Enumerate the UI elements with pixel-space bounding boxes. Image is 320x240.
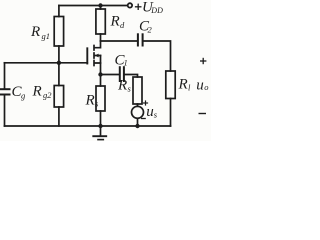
wire gate horizontal xyxy=(5,62,88,64)
svg-text:R: R xyxy=(178,77,188,93)
resistor Rd bottom lead xyxy=(100,34,102,41)
svg-text:1: 1 xyxy=(124,58,128,68)
transistor Q1 channel dashes xyxy=(93,46,95,66)
resistor Rs source xyxy=(96,86,105,111)
wire Rs source top lead xyxy=(100,75,102,87)
svg-text:o: o xyxy=(204,82,208,92)
transistor Q1 substrate lead xyxy=(95,55,101,57)
label +UDD plus xyxy=(135,4,142,10)
node drain rail junction xyxy=(98,3,102,7)
ground stub xyxy=(100,126,102,135)
wire source node to C1 xyxy=(101,74,120,76)
wire Cg bottom lead xyxy=(4,95,6,126)
wire Rg1 bottom lead xyxy=(58,46,60,63)
capacitor C2 xyxy=(138,34,143,45)
svg-text:g: g xyxy=(21,91,25,101)
svg-text:g1: g1 xyxy=(42,31,51,41)
wire left vertical to Cg xyxy=(4,63,6,89)
wire Rl bottom lead xyxy=(170,99,172,127)
wire us bottom lead xyxy=(137,118,139,126)
node Rs bottom junction xyxy=(98,124,102,128)
node gate junction xyxy=(57,61,61,65)
label us plus xyxy=(143,100,148,105)
wire drain to C2 xyxy=(101,40,138,42)
svg-text:u: u xyxy=(146,104,154,120)
svg-text:R: R xyxy=(117,78,127,94)
resistor Rg1 xyxy=(54,17,63,47)
resistor Rd xyxy=(96,9,105,34)
wire Rg2 bottom lead xyxy=(58,107,60,126)
wire C1 to Rs xyxy=(125,75,138,78)
label us minus xyxy=(141,118,146,120)
svg-text:R: R xyxy=(30,24,40,40)
wire Rs to us xyxy=(137,104,139,106)
svg-text:R: R xyxy=(110,14,120,30)
node source junction xyxy=(98,72,102,76)
svg-text:g2: g2 xyxy=(43,90,52,100)
label uo minus xyxy=(199,113,207,115)
svg-text:DD: DD xyxy=(150,6,163,15)
source us circle xyxy=(132,106,144,118)
wire Rg1 top lead xyxy=(58,6,60,17)
resistor Rl xyxy=(166,71,175,99)
node us bottom junction xyxy=(135,124,139,128)
capacitor C1 xyxy=(120,67,124,81)
ground xyxy=(93,136,106,139)
terminal +UDD xyxy=(128,3,132,7)
transistor Q1 source lead xyxy=(95,56,101,64)
resistor Rs signal xyxy=(133,77,142,104)
wire bottom rail xyxy=(5,125,171,127)
wire C2 to output node xyxy=(144,41,171,71)
transistor Q1 drain lead xyxy=(95,41,101,48)
svg-text:R: R xyxy=(32,84,42,100)
svg-text:u: u xyxy=(196,78,204,94)
wire top supply rail xyxy=(59,5,128,7)
transistor Q1 substrate arrow xyxy=(95,54,99,58)
wire Rs source bottom lead xyxy=(100,111,102,126)
svg-text:R: R xyxy=(85,93,95,109)
capacitor Cg xyxy=(1,89,10,94)
wire Rg2 top lead xyxy=(58,63,60,86)
transistor Q1 MOSFET gate bar xyxy=(86,48,88,63)
label uo plus xyxy=(200,58,206,64)
wire source vertical xyxy=(100,63,102,75)
resistor Rg2 xyxy=(54,86,63,108)
resistor Rd top lead xyxy=(100,6,102,10)
